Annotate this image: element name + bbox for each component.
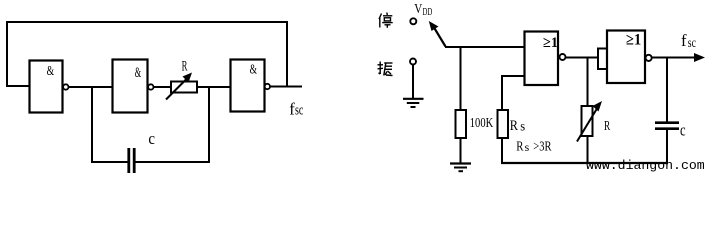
capacitor C2 (label c) bbox=[655, 123, 679, 129]
wire capacitor bottom left bbox=[91, 161, 128, 163]
svg-text:≥1: ≥1 bbox=[543, 35, 558, 51]
svg-text:≥1: ≥1 bbox=[626, 32, 641, 49]
label Rs bbox=[510, 118, 525, 134]
label 振 (oscillate, drawn strokes) bbox=[378, 62, 393, 76]
wire oscillate contact to ground bbox=[412, 65, 414, 99]
svg-text:www.diangon.com: www.diangon.com bbox=[586, 158, 705, 173]
svg-text:&: & bbox=[250, 63, 257, 78]
svg-text:R: R bbox=[604, 119, 611, 134]
svg-text:V: V bbox=[414, 1, 422, 16]
svg-text:sc: sc bbox=[688, 35, 696, 50]
wire capacitor bottom right bbox=[136, 161, 211, 163]
wire U2 output to resistor R1 bbox=[154, 86, 172, 88]
wire capacitor branch right (junction down) bbox=[208, 87, 210, 162]
wire feedback top (output to first gate input) bbox=[7, 22, 287, 86]
wire Rs to U4 input 2 bbox=[502, 76, 524, 110]
label fsc (left output) bbox=[289, 99, 303, 118]
svg-text:&: & bbox=[47, 64, 55, 79]
svg-text:&: & bbox=[135, 65, 142, 81]
wire U3 output bbox=[270, 86, 302, 88]
ground (below 100K) bbox=[450, 164, 471, 172]
gate U5 (NOR, &#8805;1) bbox=[607, 31, 652, 84]
resistor R1 (variable, label R) bbox=[166, 73, 197, 100]
svg-text:s: s bbox=[525, 142, 530, 154]
gate U1 (NAND &) bbox=[30, 61, 69, 113]
svg-text:f: f bbox=[681, 31, 687, 50]
switch contact node (stop) bbox=[410, 18, 416, 24]
wire R2 to ground bbox=[460, 138, 462, 163]
gate U2 (NAND &) bbox=[113, 60, 154, 113]
svg-text:100K: 100K bbox=[470, 116, 493, 131]
wire bottom rail bbox=[501, 162, 668, 164]
wire C2 to bottom rail bbox=[666, 130, 668, 164]
ground (oscillate contact) bbox=[403, 99, 424, 107]
svg-text:c: c bbox=[148, 129, 155, 148]
svg-text:R: R bbox=[516, 140, 524, 155]
svg-text:sc: sc bbox=[295, 102, 304, 118]
switch S1 arm with arrowhead bbox=[429, 21, 446, 47]
svg-text:c: c bbox=[680, 121, 686, 140]
label VDD bbox=[414, 1, 432, 18]
wire R1 to U3 input bbox=[197, 86, 230, 88]
resistor R4 (variable, label R) bbox=[577, 101, 602, 142]
wire switch to U4 input 1 bbox=[445, 46, 524, 48]
resistor R3 (Rs) bbox=[498, 110, 509, 138]
wire U1 output to U2 input bbox=[69, 86, 113, 88]
svg-text:DD: DD bbox=[423, 7, 433, 18]
wire R4 to bottom rail bbox=[587, 136, 589, 164]
svg-text:s: s bbox=[520, 119, 525, 134]
label fsc (right output) bbox=[681, 31, 696, 50]
wire capacitor C2 branch (junction down) bbox=[666, 58, 668, 123]
wire main vertical to resistor R2 (100K) bbox=[460, 47, 462, 110]
svg-text:R: R bbox=[510, 118, 518, 134]
wire U5 output with arrow (fsc out) bbox=[652, 53, 706, 62]
gate U4 (NOR, &#8805;1) bbox=[525, 32, 566, 86]
svg-text:R: R bbox=[182, 59, 188, 75]
U5 input box bbox=[598, 49, 607, 70]
wire U4 output to U5 input bbox=[566, 57, 599, 59]
gate U3 (NAND &) bbox=[231, 60, 270, 112]
resistor R2 (100K) bbox=[456, 110, 467, 138]
label Rs > 3R bbox=[516, 140, 552, 155]
wire R4 branch (junction down) bbox=[587, 58, 589, 107]
label 停 (stop, drawn strokes) bbox=[379, 13, 393, 28]
switch contact node (oscillate) bbox=[410, 59, 416, 65]
capacitor C1 (label c) bbox=[129, 148, 134, 173]
svg-text:>3R: >3R bbox=[533, 140, 552, 155]
wire capacitor branch left (junction down) bbox=[91, 87, 93, 162]
wire Rs to bottom rail bbox=[501, 138, 503, 164]
